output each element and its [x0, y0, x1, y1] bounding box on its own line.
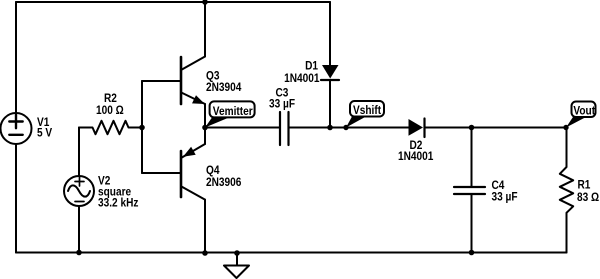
wire R1 bottom to rail — [566, 213, 568, 253]
wire bottom rail — [16, 252, 567, 254]
diode D1 triangle — [322, 65, 339, 79]
wire D1 vertical bottom — [329, 80, 331, 128]
V1 plus symbol — [9, 115, 22, 128]
capacitor C4 top plate — [454, 186, 485, 188]
diode D2 cathode bar — [423, 119, 425, 138]
node Vshift dot — [343, 125, 348, 130]
ground stem — [236, 253, 238, 266]
diode D1 cathode bar — [321, 79, 339, 81]
wire Q4 emitter vertical — [204, 128, 206, 145]
svg-text:R2: R2 — [104, 92, 117, 105]
node label Vout callout — [566, 102, 596, 128]
transistor Q4 emitter diagonal — [181, 144, 205, 158]
wire left vertical top (V1 to top rail) — [15, 2, 17, 113]
junction dot R2 / base vertical — [139, 125, 145, 131]
node label Vshift callout — [346, 101, 384, 128]
junction dot V2 bottom rail — [76, 250, 82, 256]
svg-text:100 Ω: 100 Ω — [96, 104, 124, 117]
voltage source V1 circle — [1, 113, 32, 144]
capacitor C4 bottom plate — [454, 193, 485, 195]
svg-text:Vemitter: Vemitter — [213, 105, 254, 118]
transistor Q3 emitter diagonal — [181, 92, 205, 104]
wire Q4 base lead — [142, 172, 181, 174]
capacitor C3 left plate — [279, 112, 281, 145]
svg-text:33 µF: 33 µF — [269, 98, 295, 111]
node label Vemitter callout — [205, 101, 255, 127]
wire C3 to D2 anode — [289, 127, 409, 129]
wire D2 cathode to C4 node to Vout node — [425, 127, 567, 129]
capacitor C3 right plate — [287, 112, 289, 145]
wire C4 vertical top — [471, 128, 473, 188]
node Vout dot — [563, 125, 568, 130]
wire base vertical (R2 node to both bases) — [141, 81, 143, 173]
wire R2 left down to V2 — [78, 128, 80, 177]
wire left vertical bottom (V1 to bottom rail) — [15, 144, 17, 253]
ground triangle — [224, 266, 249, 279]
wire Q3 emitter vertical — [204, 104, 206, 128]
junction dot Q4 collector bottom rail — [202, 250, 208, 256]
diode D2 triangle — [409, 119, 424, 136]
wire C4 bottom vertical — [471, 194, 473, 253]
svg-text:1N4001: 1N4001 — [284, 73, 319, 86]
junction dot D1 / rail — [327, 125, 333, 131]
V1 minus symbol — [9, 134, 22, 136]
junction node Vemitter — [202, 125, 208, 131]
V2 plus symbol — [75, 177, 84, 186]
resistor R1 zigzag — [560, 167, 573, 213]
wire R1 top lead — [566, 128, 568, 168]
V2 sine wave — [68, 185, 90, 196]
transistor Q4 emitter arrow — [183, 147, 196, 157]
transistor Q3 emitter arrow — [192, 95, 205, 104]
svg-text:33.2 kHz: 33.2 kHz — [98, 197, 139, 210]
svg-text:R1: R1 — [578, 179, 591, 192]
wire Vemitter rail to C3 — [205, 127, 280, 129]
svg-text:2N3904: 2N3904 — [206, 81, 242, 94]
wire D1 vertical top — [329, 2, 331, 65]
voltage source V2 circle — [64, 176, 94, 206]
junction dot top rail / Q3 collector — [202, 0, 208, 5]
junction dot D2 cathode / C4 — [469, 125, 475, 131]
svg-text:5 V: 5 V — [37, 127, 53, 140]
svg-text:Vout: Vout — [573, 105, 595, 118]
wire Q4 collector vertical — [204, 200, 206, 253]
svg-text:1N4001: 1N4001 — [398, 150, 433, 163]
resistor R2 — [79, 121, 142, 134]
wire V2 bottom to rail — [78, 206, 80, 253]
svg-text:83 Ω: 83 Ω — [577, 191, 599, 204]
svg-text:D1: D1 — [305, 60, 318, 73]
svg-text:Vshift: Vshift — [353, 104, 381, 117]
wire top rail — [16, 1, 330, 3]
transistor Q3 base bar — [180, 57, 183, 104]
wire Q3 collector vertical — [204, 2, 206, 57]
svg-text:33 µF: 33 µF — [492, 191, 518, 204]
V2 minus symbol — [75, 201, 84, 203]
wire Q3 base lead — [142, 80, 181, 82]
transistor Q4 collector diagonal — [181, 186, 205, 199]
junction dot C4 bottom rail — [469, 250, 475, 256]
svg-text:2N3906: 2N3906 — [206, 176, 241, 189]
transistor Q4 base bar — [180, 151, 183, 197]
junction dot ground stem — [234, 250, 240, 256]
transistor Q3 collector diagonal — [181, 57, 205, 71]
